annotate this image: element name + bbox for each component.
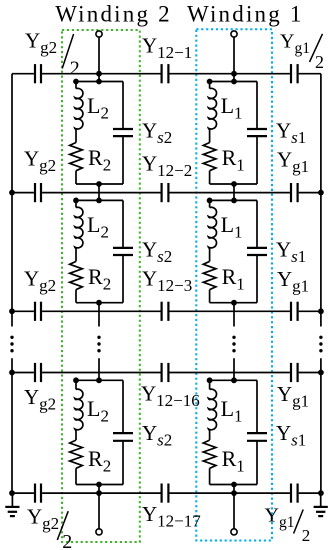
wire: section bottom conductor (winding 2) (76, 484, 123, 486)
capacitor Yg1 (right, rail 2) (290, 183, 292, 202)
resistor R2 (70, 261, 83, 289)
wire: cap Ys1 leads (256, 82, 258, 130)
wire: winding 2 stub across rail 4 (98, 358, 100, 380)
wire: L2 to R2 (75, 430, 77, 440)
wire: cap Ys2 leads (122, 200, 124, 248)
resistor R1 (203, 261, 216, 289)
wire: section bottom conductor (winding 1) (210, 484, 257, 486)
svg-text:Y12−1: Y12−1 (142, 34, 192, 63)
terminal: winding 1 bottom (231, 529, 237, 535)
svg-text:L2: L2 (87, 93, 109, 123)
wire: winding 1 bottom terminal lead (233, 485, 235, 529)
svg-text:Yg1: Yg1 (277, 382, 309, 411)
node: right bus junction dots (318, 190, 324, 196)
wire: cap Ys1 leads (256, 200, 258, 248)
wire: section top conductor (winding 1) (210, 199, 257, 201)
node: junction dots section (winding 2) (73, 198, 79, 204)
capacitor Yg2 (left, rail 3) (34, 302, 36, 321)
node: continuation dots (winding 1) (232, 336, 235, 339)
inductor L2 (75, 82, 77, 89)
svg-text:Y12−17: Y12−17 (142, 502, 201, 531)
inductor L2 (75, 200, 77, 207)
wire: R1 to bottom conductor (209, 290, 211, 303)
svg-text:Ys2: Ys2 (142, 119, 172, 148)
svg-text:Yg2: Yg2 (24, 267, 56, 296)
wire: section top conductor (winding 2) (76, 81, 123, 83)
capacitor Y12-3 (rail 3) (161, 302, 163, 321)
winding 1 boundary (cyan dotted box) (196, 29, 272, 540)
svg-text:Yg1: Yg1 (280, 31, 310, 58)
svg-text:Ys2: Ys2 (142, 237, 172, 266)
wire: horizontal rail 3 segments (y=311.3) (12, 310, 34, 312)
svg-text:R2: R2 (88, 264, 111, 294)
svg-text:Yg1: Yg1 (277, 267, 309, 296)
wire: cap Ys2 leads (122, 380, 124, 433)
wire: winding 1 stub across rail 4 (233, 358, 235, 380)
capacitor Y12-17 (rail 5) (161, 484, 163, 503)
resistor R2 (70, 143, 83, 171)
svg-text:Yg2: Yg2 (24, 147, 56, 176)
wire: R1 to bottom conductor (209, 171, 211, 184)
svg-text:Y12−2: Y12−2 (142, 152, 192, 181)
node: junction dots section (winding 2) (73, 79, 79, 85)
wire: R1 to bottom conductor (209, 468, 211, 484)
wire: R2 to bottom conductor (75, 171, 77, 184)
capacitor Yg2/2 (left, rail 5) (34, 484, 36, 503)
wire: L1 to R1 (209, 430, 211, 440)
wire: section bottom conductor (winding 1) (210, 183, 257, 185)
wire: horizontal rail 5 segments (y=493.1) (12, 492, 34, 494)
capacitor Yg1 (right, rail 4) (290, 363, 292, 382)
wire: winding 2 stub across rail 2 (98, 184, 100, 200)
svg-text:Yg2: Yg2 (27, 505, 59, 534)
ground (right) (320, 493, 322, 506)
capacitor Yg1/2 (right, rail 5) (290, 484, 292, 503)
wire: cap Ys1 leads (256, 380, 258, 433)
svg-text:Yg2: Yg2 (25, 29, 57, 58)
svg-text:L1: L1 (221, 93, 243, 123)
svg-text:2: 2 (315, 52, 324, 72)
terminal: winding 2 top (96, 31, 102, 37)
capacitor Ys1 plates (247, 128, 267, 130)
svg-text:L1: L1 (221, 396, 243, 426)
svg-text:L2: L2 (87, 212, 109, 242)
wire: section top conductor (winding 2) (76, 379, 123, 381)
svg-text:2: 2 (302, 526, 311, 545)
terminal: winding 2 bottom (96, 529, 102, 535)
capacitor Yg2/2 (left, rail 1) (34, 64, 36, 83)
inductor L1 (209, 380, 211, 389)
node: continuation dots (winding 2) (97, 336, 100, 339)
capacitor Ys2 plates (113, 128, 133, 130)
svg-text:R1: R1 (222, 145, 245, 175)
node: junction dots section (winding 1) (207, 198, 213, 204)
node: winding stub dots on top rail (96, 71, 102, 77)
wire: L1 to R1 (209, 248, 211, 261)
node: winding stub dots on bottom rail (96, 490, 102, 496)
wire: winding 2 stub below rail 3 (98, 303, 100, 327)
wire: winding 1 top terminal lead (233, 37, 235, 81)
wire: section bottom conductor (winding 2) (76, 302, 123, 304)
node: junction dots section (winding 1) (207, 377, 213, 383)
wire: winding 1 stub across rail 2 (233, 184, 235, 200)
svg-text:R1: R1 (222, 446, 245, 476)
svg-text:Winding 2: Winding 2 (55, 2, 172, 27)
wire: section top conductor (winding 2) (76, 199, 123, 201)
inductor L1 (209, 82, 211, 89)
capacitor Yg1 (right, rail 3) (290, 302, 292, 321)
resistor R2 (70, 440, 83, 468)
svg-text:Ys1: Ys1 (276, 119, 306, 148)
wire: R2 to bottom conductor (75, 468, 77, 484)
svg-text:2: 2 (70, 58, 80, 80)
wire: winding 2 top terminal lead (98, 37, 100, 81)
wire: winding 1 stub below rail 3 (233, 303, 235, 327)
inductor L1 (209, 200, 211, 207)
svg-text:Yg1: Yg1 (265, 505, 295, 532)
inductor L2 (75, 380, 77, 389)
node: continuation dots (left bus) (10, 336, 13, 339)
wire: cap Ys2 leads (122, 82, 124, 130)
capacitor Y12-16 (rail 4) (161, 363, 163, 382)
wire: L2 to R2 (75, 248, 77, 261)
capacitor Ys2 plates (113, 247, 133, 249)
wire: section top conductor (winding 1) (210, 81, 257, 83)
svg-text:R2: R2 (88, 446, 111, 476)
capacitor Ys1 plates (247, 432, 267, 434)
resistor R1 (203, 143, 216, 171)
capacitor Y12-2 (rail 2) (161, 183, 163, 202)
capacitor Yg2 (left, rail 4) (34, 363, 36, 382)
ground (left) (11, 493, 13, 506)
node: continuation dots (right bus) (319, 336, 322, 339)
svg-text:L2: L2 (87, 396, 109, 426)
wire: section bottom conductor (winding 2) (76, 183, 123, 185)
svg-text:Winding 1: Winding 1 (187, 2, 304, 27)
wire: R2 to bottom conductor (75, 290, 77, 303)
wire: horizontal rail 4 segments (y=372.5) (12, 372, 34, 374)
node: left bus junction dots (9, 190, 15, 196)
winding 2 boundary (green dotted box) (62, 30, 140, 542)
resistor R1 (203, 440, 216, 468)
svg-text:Yg2: Yg2 (24, 385, 56, 414)
capacitor Ys1 plates (247, 247, 267, 249)
svg-text:Ys2: Ys2 (142, 421, 172, 450)
wire: section top conductor (winding 1) (210, 379, 257, 381)
capacitor Ys2 plates (113, 432, 133, 434)
node: junction dots section (winding 2) (73, 377, 79, 383)
wire: left bus (Yg2 side) (11, 74, 13, 327)
wire: section bottom conductor (winding 1) (210, 302, 257, 304)
capacitor Yg2 (left, rail 2) (34, 183, 36, 202)
svg-text:R2: R2 (88, 145, 111, 175)
svg-text:2: 2 (62, 531, 72, 550)
wire: horizontal rail 2 segments (y=192.6) (12, 192, 34, 194)
wire: winding 2 bottom terminal lead (98, 485, 100, 529)
svg-text:Y12−3: Y12−3 (142, 267, 192, 296)
svg-text:L1: L1 (221, 212, 243, 242)
wire: horizontal rail 1 segments (y=73.7) (12, 73, 34, 75)
svg-text:Ys1: Ys1 (276, 421, 306, 450)
node: junction dots section (winding 1) (207, 79, 213, 85)
wire: right bus (Yg1 side) (320, 74, 322, 327)
svg-text:Y12−16: Y12−16 (141, 382, 200, 411)
svg-text:Ys1: Ys1 (276, 237, 306, 266)
terminal: winding 1 top (231, 31, 237, 37)
wire: L1 to R1 (209, 129, 211, 142)
svg-text:R1: R1 (222, 264, 245, 294)
wire: L2 to R2 (75, 129, 77, 142)
svg-text:Yg1: Yg1 (277, 148, 309, 177)
capacitor Y12-1 (rail 1) (161, 64, 163, 83)
capacitor Yg1/2 (right, rail 1) (290, 64, 292, 83)
